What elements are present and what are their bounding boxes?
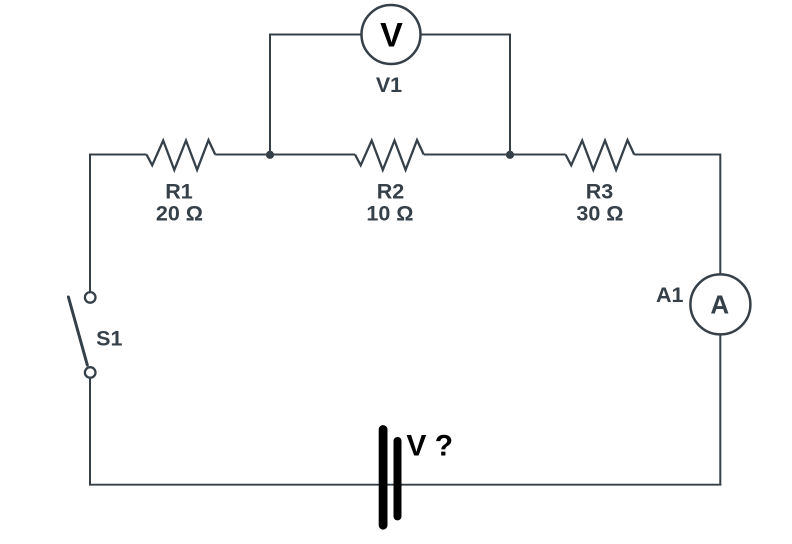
ammeter A1 body [690, 274, 750, 334]
switch S1 bottom terminal [85, 367, 96, 378]
wire: R2 to R3 [424, 154, 566, 156]
voltmeter V1 body [362, 5, 421, 64]
wire: bottom return line [89, 484, 721, 486]
svg-text:R3: R3 [586, 179, 614, 203]
wire: voltmeter branch, top-left horizontal [269, 34, 361, 36]
wire: left side, switch down to bottom corner [89, 378, 91, 485]
svg-text:30 Ω: 30 Ω [576, 201, 623, 225]
node: junction dot between R1 and R2 [266, 151, 274, 159]
wire: right side, main line down to ammeter [719, 154, 721, 275]
wire: left side, main line down to switch [89, 154, 91, 292]
svg-text:V1: V1 [376, 73, 402, 97]
resistor R1 [147, 140, 216, 170]
svg-text:R1: R1 [165, 179, 193, 203]
wire: right side, ammeter down to bottom corner [719, 334, 721, 485]
switch S1 blade [68, 297, 87, 365]
node: junction dot between R2 and R3 [506, 151, 514, 159]
svg-text:S1: S1 [96, 327, 122, 351]
wire: voltmeter branch, left riser [269, 34, 271, 156]
wire: voltmeter branch, right riser [509, 34, 511, 156]
switch S1 top terminal [85, 292, 96, 303]
svg-text:20 Ω: 20 Ω [156, 201, 203, 225]
battery: long plate (positive) [379, 430, 388, 526]
resistor R3 [566, 140, 635, 170]
battery: short plate (negative) [394, 441, 402, 516]
svg-text:10 Ω: 10 Ω [366, 201, 413, 225]
wire: main line, left corner to R1 [89, 154, 147, 156]
wire: voltmeter branch, top-right horizontal [421, 34, 511, 36]
svg-text:A: A [710, 289, 729, 319]
svg-text:V: V [380, 17, 403, 55]
resistor R2 [355, 140, 424, 170]
svg-text:A1: A1 [656, 283, 684, 307]
wire: R3 to right corner [634, 154, 721, 156]
svg-text:V ?: V ? [406, 430, 453, 463]
wire: R1 to R2 [215, 154, 355, 156]
svg-text:R2: R2 [377, 179, 405, 203]
